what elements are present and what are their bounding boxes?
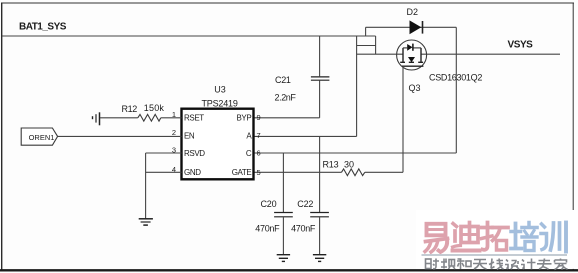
Q3 ref label: [409, 83, 421, 93]
svg-text:RSET: RSET: [184, 113, 204, 122]
capacitor C20 label: [261, 199, 277, 209]
U3 pin number 1: [172, 110, 176, 119]
svg-text:U3: U3: [214, 85, 226, 95]
专: [537, 259, 552, 270]
wire C21 riser upper: [319, 36, 321, 76]
设: [505, 260, 519, 270]
家: [555, 259, 568, 270]
svg-text:6: 6: [257, 148, 261, 157]
wire C20 to ground: [282, 217, 284, 254]
svg-text:RSVD: RSVD: [184, 149, 205, 158]
U3 pin number 9: [257, 113, 261, 122]
U3 pin label GATE: [232, 168, 252, 177]
resistor R13 ref label: [323, 160, 339, 170]
svg-text:C20: C20: [261, 199, 277, 209]
svg-text:GND: GND: [184, 168, 201, 177]
net label BAT1_SYS: [19, 22, 67, 33]
U3 pin label A: [246, 132, 252, 141]
wire vertical riser BAT to A pin: [356, 36, 358, 136]
线: [489, 259, 504, 270]
char 训: [541, 223, 566, 252]
wire VSYS horizontal left of Q3: [357, 53, 403, 55]
U3 pin number 7: [257, 131, 261, 140]
svg-text:GATE: GATE: [232, 168, 252, 177]
char 迪: [453, 223, 480, 251]
svg-text:OREN1: OREN1: [29, 133, 55, 142]
U3 pin label RSVD: [184, 149, 205, 158]
char 培: [511, 223, 537, 251]
svg-text:470nF: 470nF: [291, 224, 316, 234]
watermark divider line: [422, 254, 568, 256]
watermark small text 射频和天线设计专家: [426, 259, 568, 270]
wire GATE pin 5 left of R13: [254, 171, 342, 173]
svg-text:CSD16301Q2: CSD16301Q2: [429, 73, 482, 83]
频: [441, 259, 455, 270]
IC U3 body: [182, 109, 254, 180]
wire Q3 gate riser: [402, 66, 404, 172]
port flag OREN1: [21, 128, 57, 145]
wire diode anode riser: [365, 27, 367, 36]
wire vertical x375.6 to VSYS line: [375, 36, 377, 54]
resistor R12: [138, 114, 161, 121]
U3 pin number 6: [257, 148, 261, 157]
wire GND pin 4: [146, 171, 182, 173]
svg-text:7: 7: [257, 131, 261, 140]
ground sideways at R12: [93, 112, 100, 125]
U3 pin label RSET: [184, 113, 204, 122]
char 易: [425, 224, 448, 252]
计: [521, 259, 536, 270]
svg-text:9: 9: [257, 113, 261, 122]
svg-text:470nF: 470nF: [255, 224, 280, 234]
U3 pin label EN: [184, 132, 195, 141]
Q3 value label CSD16301Q2: [429, 73, 482, 83]
svg-text:BYP: BYP: [236, 113, 251, 122]
svg-text:VSYS: VSYS: [508, 40, 534, 51]
svg-text:C21: C21: [275, 75, 291, 85]
U3 pin number 2: [172, 128, 176, 137]
wire EN pin 2: [58, 135, 182, 137]
diode D2: [410, 20, 423, 34]
wire diode cathode drop to C pin: [455, 27, 457, 153]
wire C22 to ground: [319, 217, 321, 254]
wire RSVD/GND down to ground: [145, 153, 147, 219]
wire middle jumper horizontal: [357, 45, 376, 47]
svg-text:5: 5: [257, 168, 261, 177]
wire C22 riser from A wire: [319, 136, 321, 212]
wire C pin 6: [254, 152, 457, 154]
svg-text:Q3: Q3: [409, 83, 421, 93]
wire A pin 7: [254, 135, 357, 137]
ground under C22: [313, 255, 326, 262]
wire C20 riser: [282, 153, 284, 212]
resistor R13: [342, 169, 365, 176]
capacitor C21: [311, 77, 330, 80]
watermark big text 易迪拓培训: [425, 223, 566, 253]
capacitor C20: [274, 213, 293, 217]
capacitor C20 value 470nF: [255, 224, 280, 234]
U3 pin label BYP: [236, 113, 251, 122]
transistor Q3 (CSD16301Q2): [397, 40, 427, 70]
U3 pin number 5: [257, 168, 261, 177]
svg-text:D2: D2: [407, 7, 419, 17]
capacitor C22 label: [297, 199, 313, 209]
capacitor C22: [310, 213, 329, 217]
svg-text:BAT1_SYS: BAT1_SYS: [19, 22, 67, 33]
svg-text:TPS2419: TPS2419: [202, 99, 238, 109]
wire diode top horizontal: [366, 26, 457, 28]
U3 pin number 4: [172, 165, 176, 174]
capacitor C21 label: [275, 75, 291, 85]
resistor R12 value 150k: [144, 103, 165, 113]
capacitor C22 value 470nF: [291, 224, 316, 234]
svg-text:150k: 150k: [144, 103, 165, 113]
svg-text:R12: R12: [122, 104, 138, 114]
svg-text:C: C: [246, 149, 252, 158]
net label VSYS: [508, 40, 534, 51]
ground under C20: [277, 255, 290, 262]
svg-text:EN: EN: [184, 132, 195, 141]
resistor R12 ref label: [122, 104, 138, 114]
ground under U3: [139, 219, 153, 225]
wire RSET left segment: [100, 117, 138, 119]
U3 pin label GND: [184, 168, 201, 177]
resistor R13 value 30: [344, 160, 354, 170]
char 拓: [482, 223, 509, 251]
capacitor C21 value: [275, 93, 297, 103]
射: [426, 259, 440, 269]
wire RSET to pin 1: [161, 117, 182, 119]
wire BAT1_SYS horizontal: [2, 35, 376, 37]
U3 pin number 3: [172, 145, 176, 154]
天: [473, 260, 487, 270]
svg-text:2.2nF: 2.2nF: [275, 93, 297, 103]
IC U3 ref label: [214, 85, 226, 95]
U3 pin label C: [246, 149, 252, 158]
diode D2 label: [407, 7, 419, 17]
svg-text:C22: C22: [297, 199, 313, 209]
svg-text:R13: R13: [323, 160, 339, 170]
watermark white backing: [416, 210, 578, 269]
wire C21 lower to BYP corner: [319, 81, 321, 118]
wire BYP pin 9: [254, 117, 320, 119]
wire RSVD pin 3: [146, 152, 182, 154]
wire GATE R13 right to gate riser: [365, 171, 403, 173]
wire VSYS horizontal right of Q3: [421, 53, 560, 55]
和: [457, 259, 471, 270]
IC U3 value TPS2419: [202, 99, 238, 109]
svg-text:30: 30: [344, 160, 354, 170]
